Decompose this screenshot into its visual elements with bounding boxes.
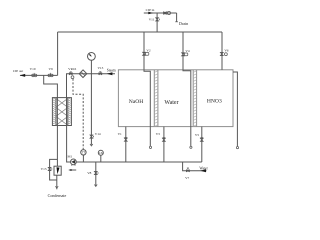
check valve circle on CIP-in line — [167, 11, 170, 14]
svg-text:V13: V13 — [97, 66, 103, 70]
wire CIP-out line — [20, 74, 58, 76]
svg-text:V15: V15 — [41, 167, 47, 171]
svg-text:LS: LS — [99, 151, 103, 155]
valve V6 — [220, 52, 223, 55]
wire V11 branch — [156, 13, 158, 32]
svg-text:V1: V1 — [118, 132, 122, 136]
instrument TT — [82, 155, 84, 162]
wire Water dip tube — [183, 70, 191, 146]
wire CIP-in line — [144, 12, 177, 14]
svg-text:V9: V9 — [49, 67, 53, 71]
wire V6 drop — [221, 32, 223, 70]
svg-text:V4: V4 — [185, 49, 189, 53]
wire pump suction — [67, 126, 71, 163]
flow arrow at pump — [71, 169, 77, 171]
svg-text:NaOH: NaOH — [129, 99, 144, 105]
wire left riser — [57, 32, 59, 75]
wire water make-up branch — [183, 162, 207, 171]
flow arrow CIP in — [148, 12, 153, 15]
drain outlet tick — [175, 21, 178, 23]
wire V8 drain — [95, 162, 97, 186]
valve V9 — [48, 74, 51, 77]
valve VR16 — [69, 73, 72, 75]
wire condensate line below exchanger — [56, 126, 58, 167]
steam trap body — [54, 166, 61, 175]
exchanger coil — [56, 98, 68, 125]
valve V4 — [182, 53, 185, 56]
wire condensate outlet — [56, 175, 58, 189]
valve V11 — [156, 18, 159, 21]
wire steam drop to exchanger — [66, 74, 68, 98]
wire drain drop — [176, 13, 178, 22]
valve V14 — [90, 135, 93, 138]
valve V8 — [94, 171, 97, 174]
tank divider 2 — [193, 70, 196, 127]
arrow condensate — [55, 186, 58, 188]
svg-text:VR16: VR16 — [68, 67, 76, 71]
pump M1 — [71, 159, 77, 165]
wire V3 outlet — [163, 127, 165, 162]
wire bottom header — [76, 161, 202, 163]
exchanger right wall hatch — [68, 98, 71, 124]
actuator of VR16 — [71, 76, 74, 79]
wire trap bypass — [50, 159, 58, 180]
wire V4 drop — [182, 32, 184, 70]
valve V15 — [48, 167, 51, 170]
svg-text:V10: V10 — [30, 67, 36, 71]
svg-text:V6: V6 — [224, 49, 228, 53]
valve V1 — [124, 137, 127, 139]
valve V7 — [186, 170, 189, 172]
exchanger left wall hatch — [53, 98, 56, 124]
wire top header — [58, 31, 222, 33]
flow arrow Water inlet — [200, 169, 206, 172]
wire NaOH dip tube — [144, 70, 150, 146]
strainer — [79, 70, 87, 78]
arrow V8 outlet — [94, 185, 97, 187]
svg-text:Steam: Steam — [107, 69, 116, 73]
wire V1 outlet — [125, 127, 127, 162]
valve V5 — [200, 137, 203, 139]
svg-text:TT: TT — [82, 151, 86, 155]
svg-text:V11: V11 — [149, 18, 155, 22]
svg-text:HNO3: HNO3 — [207, 99, 222, 105]
svg-text:CIP out: CIP out — [13, 69, 23, 73]
svg-text:M1: M1 — [67, 154, 72, 158]
valve V2 — [143, 52, 146, 55]
tank shell — [118, 70, 233, 127]
wire steam line — [66, 73, 115, 75]
svg-text:V8: V8 — [87, 171, 91, 175]
tank divider 1 — [154, 70, 158, 127]
svg-text:V3: V3 — [156, 132, 160, 136]
wire HNO3 overflow — [233, 72, 237, 146]
wire V5 outlet — [201, 127, 203, 162]
svg-text:Water: Water — [164, 100, 178, 106]
valve V3 — [163, 137, 166, 139]
wire V14 leg — [90, 74, 92, 145]
svg-text:V7: V7 — [185, 176, 189, 180]
wire V2 drop — [143, 32, 145, 70]
svg-text:V14: V14 — [95, 132, 101, 136]
wire tubes through exchanger — [57, 98, 66, 126]
wire product branch to exchanger — [44, 75, 58, 97]
svg-text:V5: V5 — [195, 133, 199, 137]
instrument LS — [100, 155, 102, 162]
valve V13 — [99, 73, 102, 75]
pressure gauge — [88, 53, 96, 61]
svg-text:Condensate: Condensate — [48, 193, 67, 198]
svg-text:Water: Water — [199, 166, 208, 170]
signal line (dashed) VR16 to TT — [73, 79, 83, 150]
flow arrow Steam — [107, 72, 113, 75]
heat exchanger E1 — [52, 98, 71, 126]
svg-text:V2: V2 — [146, 48, 150, 52]
arrow V14 outlet — [90, 144, 93, 146]
valve V12 — [164, 12, 167, 14]
svg-text:CIP in: CIP in — [146, 8, 155, 12]
svg-text:Drain: Drain — [179, 21, 188, 26]
flow arrow CIP out — [20, 74, 26, 77]
valve V10 — [32, 74, 35, 77]
